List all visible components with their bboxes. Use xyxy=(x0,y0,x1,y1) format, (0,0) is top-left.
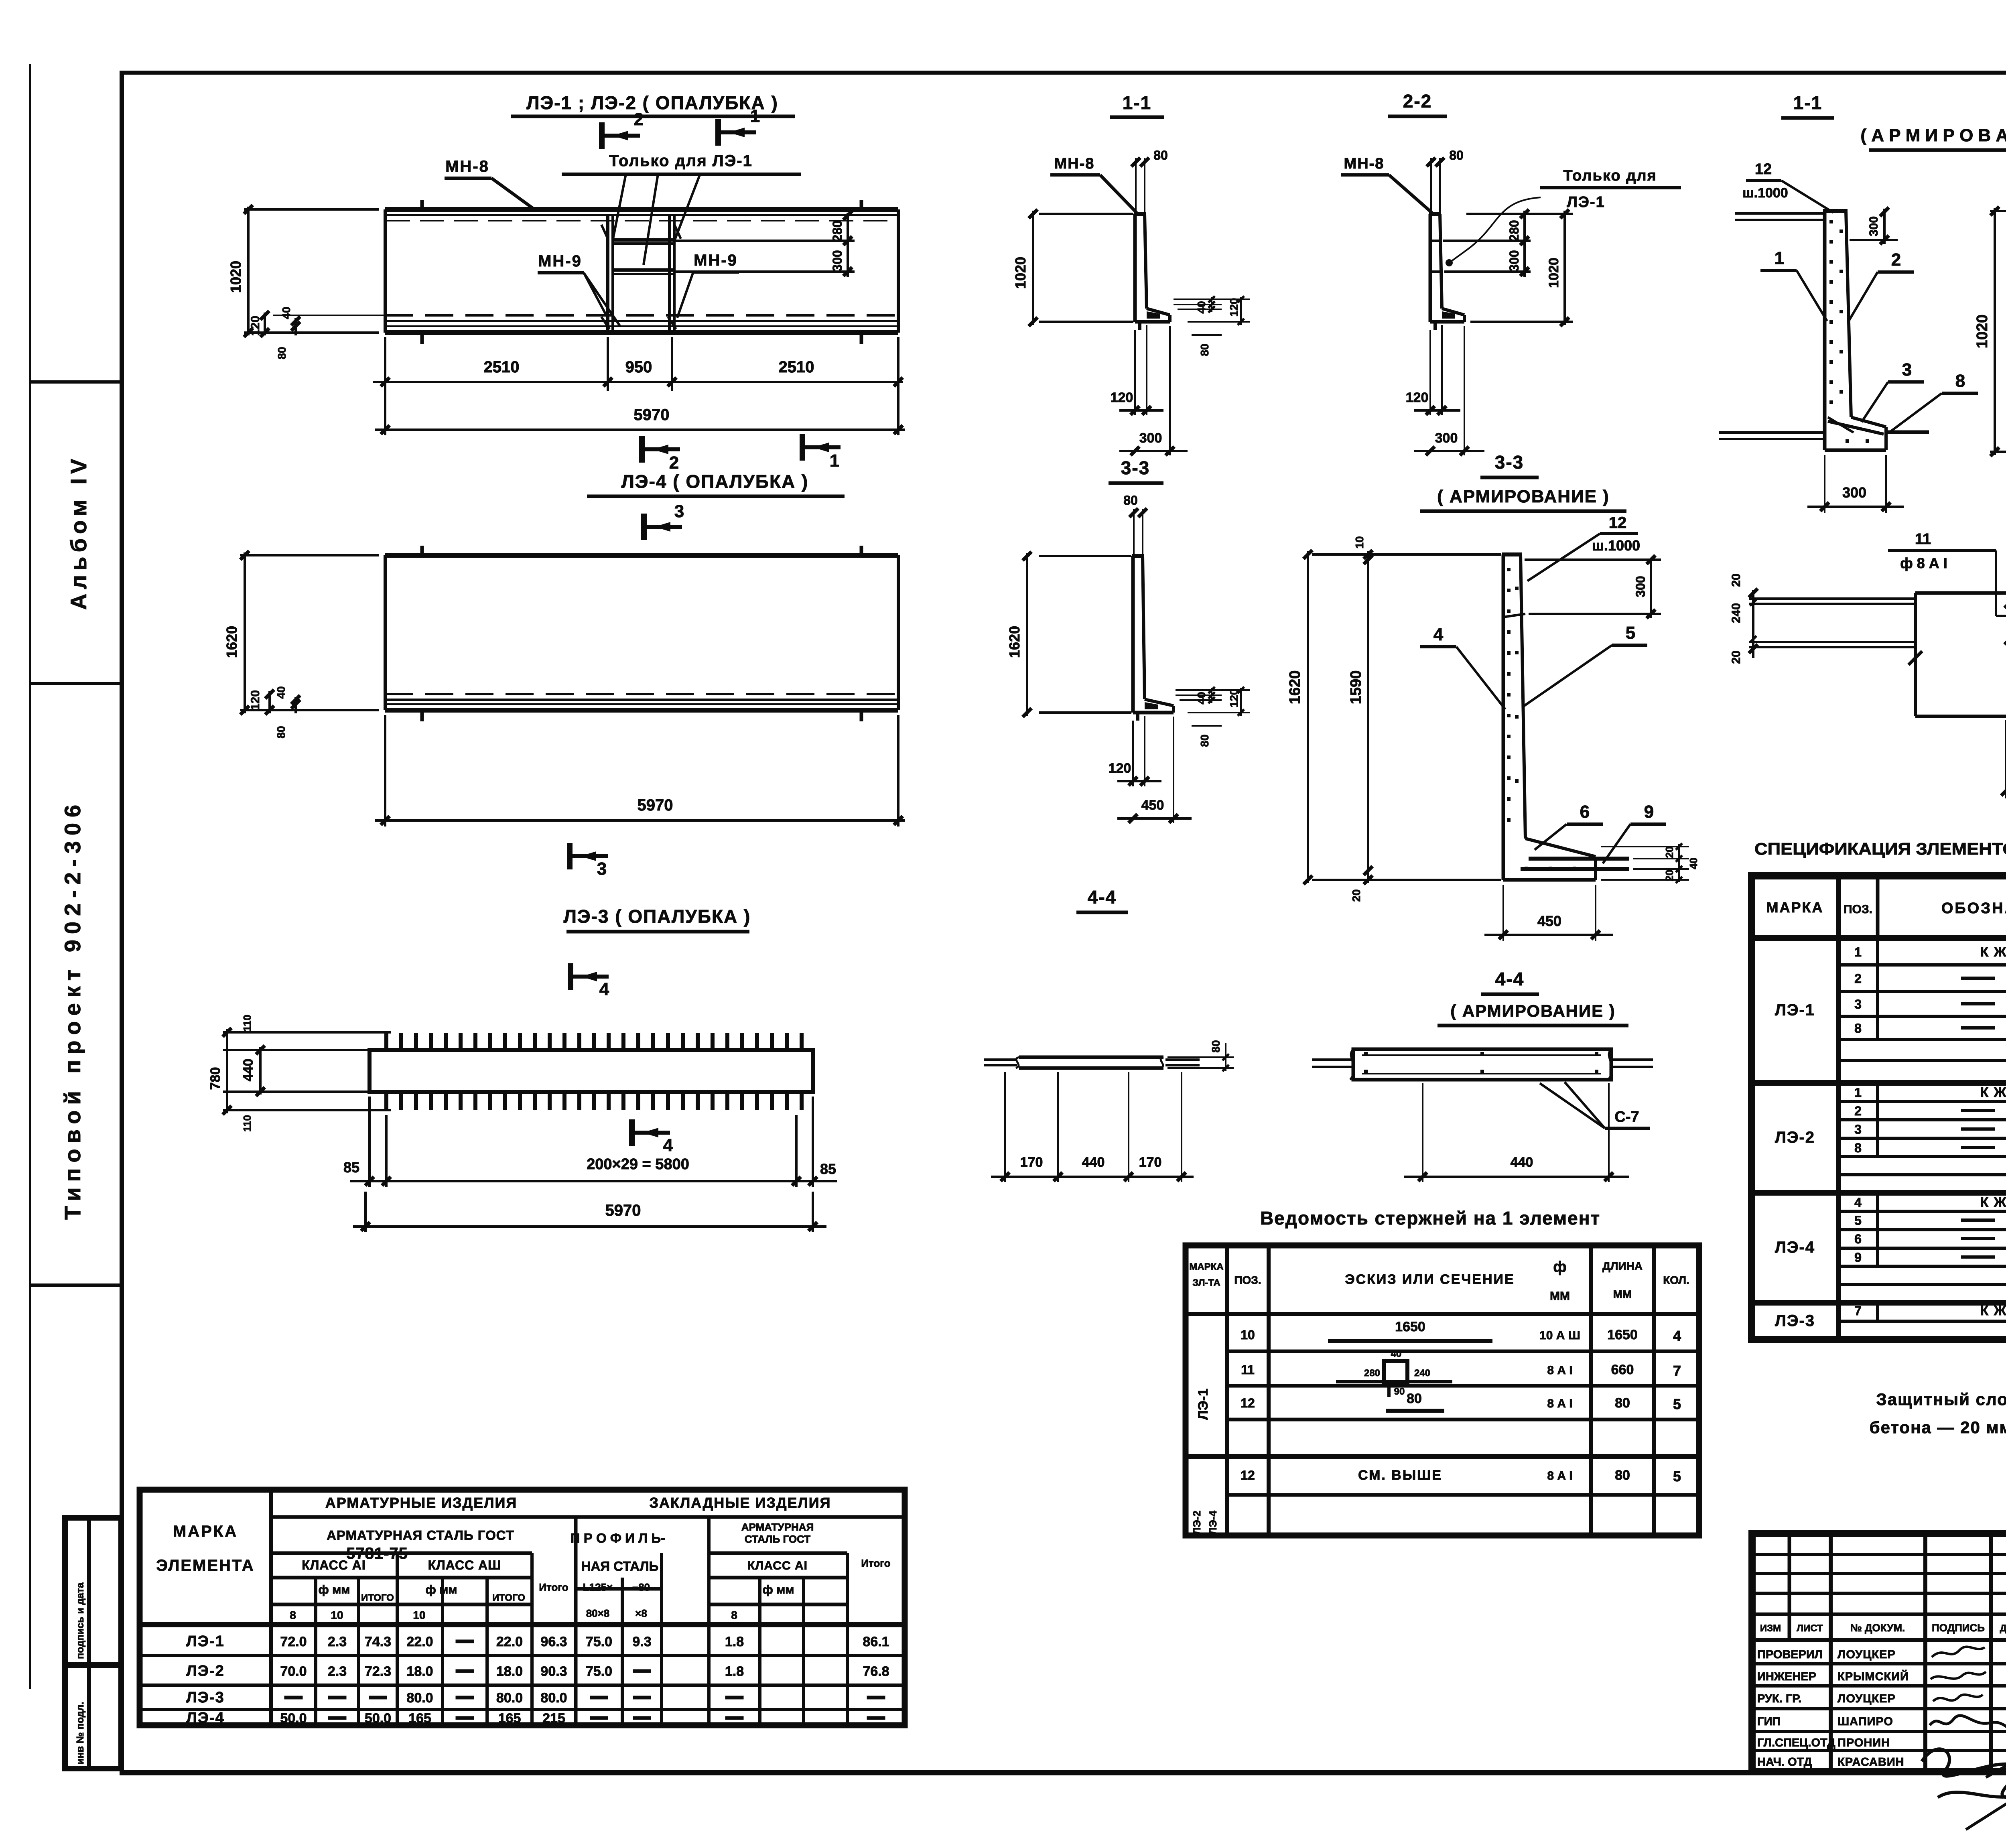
section 3-3 opalubka body xyxy=(1131,556,1135,713)
svg-text:80.0: 80.0 xyxy=(406,1690,433,1706)
svg-text:120: 120 xyxy=(1228,298,1240,317)
svg-text:7: 7 xyxy=(1673,1363,1681,1379)
section 4-4 armirovanie bar xyxy=(1353,1049,1611,1080)
svg-text:280: 280 xyxy=(830,220,845,242)
svg-text:85: 85 xyxy=(820,1161,836,1177)
dim 200x29=5800 xyxy=(368,1097,371,1187)
svg-text:120: 120 xyxy=(1228,689,1240,708)
svg-text:300: 300 xyxy=(1842,484,1866,501)
svg-text:1: 1 xyxy=(1854,1085,1862,1100)
svg-text:75.0: 75.0 xyxy=(586,1664,612,1679)
svg-text:ДАТЯ: ДАТЯ xyxy=(2000,1623,2006,1634)
svg-text:1.8: 1.8 xyxy=(725,1664,744,1679)
svg-text:1620: 1620 xyxy=(223,626,240,658)
svg-text:ИЗМ: ИЗМ xyxy=(1760,1623,1781,1634)
bottom dims 120 300 (2-2) xyxy=(1429,330,1431,415)
svg-text:ПОЗ.: ПОЗ. xyxy=(1844,903,1872,916)
svg-text:ЛЭ-1: ЛЭ-1 xyxy=(186,1633,225,1650)
svg-text:1020: 1020 xyxy=(1974,315,1991,349)
svg-text:660: 660 xyxy=(1611,1362,1634,1377)
rebar dots (1-1 arm) xyxy=(1829,220,1869,443)
svg-text:ПОЗ.: ПОЗ. xyxy=(1234,1274,1261,1286)
svg-text:3-3: 3-3 xyxy=(1495,452,1524,473)
svg-text:8: 8 xyxy=(731,1609,737,1621)
svg-text:5970: 5970 xyxy=(634,406,670,424)
bottom dims 120 300 (1-1) xyxy=(1134,330,1136,415)
svg-text:18.0: 18.0 xyxy=(496,1664,523,1679)
dims 170/440/170 (4-4 op) xyxy=(1004,1072,1006,1182)
svg-text:МАРКА: МАРКА xyxy=(173,1523,238,1540)
svg-text:ш.1000: ш.1000 xyxy=(1592,537,1640,554)
svg-text:440: 440 xyxy=(241,1059,256,1082)
svg-text:2: 2 xyxy=(1891,250,1901,270)
svg-text:165: 165 xyxy=(408,1711,431,1726)
svg-text:ПРОНИН: ПРОНИН xyxy=(1837,1736,1890,1749)
svg-text:ЛЭ-4 ( ОПАЛУБКА ): ЛЭ-4 ( ОПАЛУБКА ) xyxy=(621,471,809,492)
dim 5970 (LE-3) xyxy=(364,1192,367,1232)
svg-text:( АРМИРОВАНИЕ ): ( АРМИРОВАНИЕ ) xyxy=(1450,1001,1616,1020)
svg-text:96.3: 96.3 xyxy=(540,1634,567,1649)
svg-text:5: 5 xyxy=(1673,1468,1681,1484)
svg-text:ПОДПИСЬ: ПОДПИСЬ xyxy=(1932,1622,1985,1634)
svg-text:ЛЭ-4: ЛЭ-4 xyxy=(1775,1239,1815,1256)
svg-text:200×29 = 5800: 200×29 = 5800 xyxy=(587,1156,689,1173)
page frame xyxy=(120,71,2006,75)
svg-text:НАЧ. ОТД: НАЧ. ОТД xyxy=(1757,1756,1812,1769)
svg-text:300: 300 xyxy=(1507,250,1521,271)
svg-text:40: 40 xyxy=(1391,1348,1402,1359)
section marker 4 top xyxy=(571,963,609,999)
svg-text:ЛЭ-2: ЛЭ-2 xyxy=(186,1663,225,1679)
svg-text:3-3: 3-3 xyxy=(1121,457,1150,478)
svg-text:ЛЭ-4: ЛЭ-4 xyxy=(186,1710,225,1726)
svg-text:22.0: 22.0 xyxy=(406,1634,433,1649)
svg-text:КЛАСС АI: КЛАСС АI xyxy=(747,1559,808,1572)
svg-text:подпись и дата: подпись и дата xyxy=(75,1582,86,1659)
mesh stubs (1-1 arm) xyxy=(1735,212,1824,215)
svg-text:МН-8: МН-8 xyxy=(1344,155,1385,172)
svg-text:1020: 1020 xyxy=(1546,258,1561,288)
dim 5970 xyxy=(384,391,386,435)
svg-text:80: 80 xyxy=(276,347,288,359)
svg-text:СТАЛЬ ГОСТ: СТАЛЬ ГОСТ xyxy=(745,1533,810,1545)
svg-text:ЛЭ-4: ЛЭ-4 xyxy=(1207,1511,1219,1535)
svg-text:9.3: 9.3 xyxy=(632,1634,651,1649)
signature scribbles xyxy=(1932,1647,1985,1657)
svg-text:ГИП: ГИП xyxy=(1757,1715,1781,1728)
svg-text:40: 40 xyxy=(280,307,292,319)
title block left section grid xyxy=(1752,1533,2006,1772)
lifting loop ticks xyxy=(420,200,424,209)
section marker 1 bottom xyxy=(802,434,841,471)
lifting ticks LE-4 xyxy=(420,546,424,555)
svg-text:12: 12 xyxy=(1755,161,1772,178)
svg-text:ИТОГО: ИТОГО xyxy=(361,1592,394,1603)
svg-text:1.8: 1.8 xyxy=(725,1634,744,1649)
svg-text:РУК. ГР.: РУК. ГР. xyxy=(1757,1692,1801,1705)
svg-text:240: 240 xyxy=(1730,603,1743,623)
svg-text:72.0: 72.0 xyxy=(280,1634,307,1649)
svg-text:АРМАТУРНАЯ СТАЛЬ ГОСТ: АРМАТУРНАЯ СТАЛЬ ГОСТ xyxy=(327,1528,514,1543)
sidebar line xyxy=(29,64,31,1689)
svg-text:12: 12 xyxy=(1609,514,1627,532)
bottom dims 120 450 (3-3) xyxy=(1132,721,1134,786)
svg-text:80.0: 80.0 xyxy=(496,1690,523,1706)
svg-text:20: 20 xyxy=(1663,870,1675,881)
svg-text:ф мм: ф мм xyxy=(763,1583,794,1596)
svg-text:10: 10 xyxy=(1353,536,1366,548)
svg-text:300: 300 xyxy=(1867,216,1880,236)
svg-text:№ ДОКУМ.: № ДОКУМ. xyxy=(1850,1622,1905,1634)
svg-text:4: 4 xyxy=(1433,625,1444,644)
dim 80 right (4-4 op) xyxy=(1167,1056,1234,1058)
dim 300 bottom (1-1 arm) xyxy=(1824,455,1825,513)
svg-text:80: 80 xyxy=(1407,1391,1422,1406)
svg-text:ф 8 А I: ф 8 А I xyxy=(1900,555,1947,571)
dim 1020 (2-2 arm) xyxy=(1990,210,2006,212)
svg-text:2: 2 xyxy=(634,110,644,129)
svg-text:80: 80 xyxy=(1123,493,1138,508)
svg-text:3: 3 xyxy=(1902,360,1912,380)
section marker 3 bottom xyxy=(570,843,608,879)
svg-text:ММ: ММ xyxy=(1550,1290,1570,1303)
svg-text:6: 6 xyxy=(1580,802,1590,822)
svg-text:ЛЭ-3: ЛЭ-3 xyxy=(1775,1312,1815,1330)
svg-text:4-4: 4-4 xyxy=(1495,969,1524,989)
vedomost table grid xyxy=(1186,1245,1699,1535)
svg-text:МН-8: МН-8 xyxy=(445,158,489,175)
svg-text:К Ж - 39: К Ж - 39 xyxy=(1980,1085,2006,1100)
svg-text:L125×: L125× xyxy=(583,1581,613,1593)
beam LE-1 outline xyxy=(385,207,898,212)
svg-text:120: 120 xyxy=(249,690,262,710)
section 1-1 arm body xyxy=(1823,211,1827,450)
svg-text:МАРКА: МАРКА xyxy=(1189,1261,1223,1272)
svg-text:Итого: Итого xyxy=(539,1581,568,1593)
svg-text:ф мм: ф мм xyxy=(426,1583,457,1596)
svg-text:80: 80 xyxy=(1198,734,1211,747)
svg-text:СПЕЦИФИКАЦИЯ ЗЛЕМЕНТОВ К МА: СПЕЦИФИКАЦИЯ ЗЛЕМЕНТОВ К МАРКИРОВОЧНОЙ С… xyxy=(1754,839,2006,858)
svg-text:Только для ЛЭ-1: Только для ЛЭ-1 xyxy=(609,152,753,170)
svg-text:10: 10 xyxy=(331,1609,343,1621)
svg-text:450: 450 xyxy=(1141,798,1164,813)
svg-text:74.3: 74.3 xyxy=(365,1634,391,1649)
svg-text:Защитный слой: Защитный слой xyxy=(1876,1390,2006,1409)
right dims 280/300 xyxy=(674,240,855,242)
svg-text:бетона — 20 мм.: бетона — 20 мм. xyxy=(1870,1418,2006,1437)
svg-text:−80: −80 xyxy=(632,1581,650,1593)
svg-text:240: 240 xyxy=(1414,1368,1430,1379)
svg-text:70.0: 70.0 xyxy=(280,1664,307,1679)
svg-text:40: 40 xyxy=(1195,301,1208,313)
svg-text:1620: 1620 xyxy=(1287,670,1303,705)
svg-text:110: 110 xyxy=(241,1115,253,1132)
svg-text:950: 950 xyxy=(625,358,652,376)
svg-text:КЛАСС АШ: КЛАСС АШ xyxy=(428,1558,501,1572)
svg-text:ф мм: ф мм xyxy=(319,1583,350,1596)
svg-text:1-1: 1-1 xyxy=(1793,92,1822,113)
svg-text:22.0: 22.0 xyxy=(496,1634,523,1649)
svg-text:АРМАТУРНЫЕ ИЗДЕЛИЯ: АРМАТУРНЫЕ ИЗДЕЛИЯ xyxy=(325,1495,517,1511)
svg-text:780: 780 xyxy=(208,1067,223,1090)
svg-text:440: 440 xyxy=(1511,1155,1533,1170)
right small dims (3-3) xyxy=(1176,689,1250,691)
svg-text:ШАПИРО: ШАПИРО xyxy=(1837,1715,1893,1728)
svg-text:КОЛ.: КОЛ. xyxy=(1663,1274,1689,1286)
left small dims 120 40 80 (LE-4) xyxy=(268,691,271,713)
svg-text:ЛОУЦКЕР: ЛОУЦКЕР xyxy=(1837,1692,1896,1705)
svg-text:300: 300 xyxy=(1139,431,1162,446)
title block outer xyxy=(1752,1533,2006,1772)
svg-text:1: 1 xyxy=(1775,248,1784,268)
svg-text:1650: 1650 xyxy=(1607,1327,1638,1342)
svg-text:Типовой проект 902-2-306: Типовой проект 902-2-306 xyxy=(60,799,85,1220)
svg-text:ЛОУЦКЕР: ЛОУЦКЕР xyxy=(1837,1648,1896,1661)
dim 1020 left (1-1) xyxy=(1039,213,1133,215)
svg-text:8: 8 xyxy=(290,1609,296,1621)
svg-text:2: 2 xyxy=(1854,1104,1862,1118)
dims 1620/1590 left (3-3 arm) xyxy=(1312,553,1501,556)
svg-text:С-7: С-7 xyxy=(1614,1109,1639,1125)
dim 1620 left (3-3) xyxy=(1039,555,1131,557)
dim 300 (1-1 arm top right) xyxy=(1850,239,1898,241)
bottom bars sticking right (3-3 arm) xyxy=(1529,857,1629,861)
dim row 2510/950/2510 xyxy=(384,337,386,391)
svg-text:20: 20 xyxy=(1730,573,1743,587)
svg-text:75.0: 75.0 xyxy=(586,1634,612,1649)
svg-text:80: 80 xyxy=(1210,1040,1222,1052)
svg-text:7: 7 xyxy=(1854,1304,1862,1318)
svg-text:8: 8 xyxy=(1854,1141,1862,1155)
svg-text:85: 85 xyxy=(343,1159,359,1176)
sidebar stamp boxes xyxy=(65,1518,121,1769)
svg-text:КЛАСС АI: КЛАСС АI xyxy=(302,1558,365,1572)
svg-text:9: 9 xyxy=(1644,802,1654,822)
svg-text:2: 2 xyxy=(669,453,679,473)
svg-text:8: 8 xyxy=(1854,1021,1862,1036)
middle joint verticals (950 zone) xyxy=(606,215,609,333)
svg-text:ЛЭ-2: ЛЭ-2 xyxy=(1775,1129,1815,1146)
svg-text:120: 120 xyxy=(1406,390,1429,405)
svg-text:2-2: 2-2 xyxy=(1403,91,1432,112)
spec block LE-4 xyxy=(1752,1300,2006,1306)
svg-text:170: 170 xyxy=(1020,1155,1043,1170)
LE-3 left dims xyxy=(223,1031,391,1034)
dim 440 (4-4 arm) xyxy=(1422,1083,1423,1182)
svg-text:ГЛ.СПЕЦ.ОТД: ГЛ.СПЕЦ.ОТД xyxy=(1757,1736,1835,1749)
svg-text:2510: 2510 xyxy=(484,358,520,376)
svg-text:К Ж - 39: К Ж - 39 xyxy=(1980,944,2006,960)
svg-text:40: 40 xyxy=(275,686,287,699)
spec block LE-2 xyxy=(1752,1190,2006,1196)
svg-text:СМ. ВЫШЕ: СМ. ВЫШЕ xyxy=(1358,1468,1442,1483)
svg-text:40: 40 xyxy=(1687,858,1699,869)
svg-text:440: 440 xyxy=(1082,1155,1105,1170)
right dims 280/300/1020 (2-2) xyxy=(1443,240,1531,242)
svg-text:12: 12 xyxy=(1241,1396,1255,1410)
svg-text:11: 11 xyxy=(1915,531,1931,548)
left dim 1020 xyxy=(244,208,379,211)
svg-text:ЛЭ-3 ( ОПАЛУБКА ): ЛЭ-3 ( ОПАЛУБКА ) xyxy=(564,906,751,927)
svg-text:НАЯ СТАЛЬ: НАЯ СТАЛЬ xyxy=(581,1559,659,1574)
svg-text:5: 5 xyxy=(1854,1213,1862,1228)
svg-text:МАРКА: МАРКА xyxy=(1766,899,1824,916)
svg-text:ОБОЗНАЧЕНИЕ: ОБОЗНАЧЕНИЕ xyxy=(1941,900,2006,917)
svg-text:8 А I: 8 А I xyxy=(1547,1469,1572,1482)
svg-text:5970: 5970 xyxy=(605,1202,641,1219)
svg-text:8: 8 xyxy=(1955,371,1965,391)
svg-text:120: 120 xyxy=(1109,761,1131,776)
svg-text:5: 5 xyxy=(1673,1396,1681,1412)
svg-text:ЗЛ-ТА: ЗЛ-ТА xyxy=(1192,1277,1220,1288)
spec block LE-3 xyxy=(1752,1337,2006,1342)
svg-text:10: 10 xyxy=(1241,1328,1255,1342)
left small dims 120 40 80 xyxy=(273,315,385,316)
svg-text:50.0: 50.0 xyxy=(365,1711,391,1726)
svg-text:20: 20 xyxy=(1663,847,1675,858)
mesh stubs left (d-d) xyxy=(1749,597,1914,600)
svg-text:МН-9: МН-9 xyxy=(694,252,738,269)
section marker 4 middle xyxy=(632,1119,673,1155)
svg-text:5970: 5970 xyxy=(638,796,673,814)
svg-text:120: 120 xyxy=(249,316,262,336)
svg-text:1650: 1650 xyxy=(1395,1319,1425,1334)
svg-text:1: 1 xyxy=(750,106,760,126)
svg-text:76.8: 76.8 xyxy=(863,1664,889,1679)
svg-text:Итого: Итого xyxy=(861,1557,890,1569)
svg-text:1: 1 xyxy=(1854,945,1862,959)
svg-text:20: 20 xyxy=(1730,650,1743,664)
svg-text:инв № подл.: инв № подл. xyxy=(75,1702,86,1765)
spec table grid xyxy=(1752,876,2006,1340)
svg-text:2510: 2510 xyxy=(779,358,814,376)
svg-text:9: 9 xyxy=(1854,1250,1862,1265)
svg-text:ДЛИНА: ДЛИНА xyxy=(1602,1260,1643,1272)
svg-text:1590: 1590 xyxy=(1348,670,1364,705)
beam LE-3 body xyxy=(370,1050,813,1092)
svg-text:Альбом IV: Альбом IV xyxy=(66,455,91,610)
svg-text:1020: 1020 xyxy=(227,261,244,293)
svg-text:300: 300 xyxy=(1435,431,1458,446)
svg-text:170: 170 xyxy=(1139,1155,1162,1170)
section 3-3 arm body xyxy=(1502,554,1505,880)
svg-text:300: 300 xyxy=(1633,576,1648,597)
svg-text:( АРМИРОВАНИЕ ): ( АРМИРОВАНИЕ ) xyxy=(1437,487,1610,506)
svg-text:90.3: 90.3 xyxy=(540,1664,567,1679)
svg-text:80: 80 xyxy=(1153,148,1168,162)
comb ticks bottom xyxy=(384,1092,388,1110)
svg-text:П Р О Ф И Л Ь-: П Р О Ф И Л Ь- xyxy=(571,1531,665,1545)
svg-text:ЛЭ-3: ЛЭ-3 xyxy=(186,1689,225,1706)
svg-text:ЭСКИЗ ИЛИ СЕЧЕНИЕ: ЭСКИЗ ИЛИ СЕЧЕНИЕ xyxy=(1345,1272,1515,1287)
svg-text:450: 450 xyxy=(1537,913,1561,929)
svg-text:3: 3 xyxy=(1854,1122,1862,1137)
dim 300 top right (3-3 arm) xyxy=(1529,613,1661,615)
svg-text:К Ж - 39: К Ж - 39 xyxy=(1980,1303,2006,1318)
svg-text:2.3: 2.3 xyxy=(328,1634,347,1649)
svg-text:МН-8: МН-8 xyxy=(1054,155,1095,172)
svg-text:280: 280 xyxy=(1364,1368,1380,1379)
svg-text:8 А I: 8 А I xyxy=(1547,1397,1572,1410)
comb ticks top xyxy=(384,1033,388,1050)
svg-text:ЛЭ-1 ; ЛЭ-2 ( ОПАЛУБКА ): ЛЭ-1 ; ЛЭ-2 ( ОПАЛУБКА ) xyxy=(526,92,778,113)
svg-text:280: 280 xyxy=(1507,220,1521,241)
svg-text:ИТОГО: ИТОГО xyxy=(492,1592,525,1603)
svg-text:80: 80 xyxy=(275,726,287,738)
svg-text:6: 6 xyxy=(1854,1232,1862,1246)
svg-text:110: 110 xyxy=(241,1015,253,1032)
svg-text:ЗАКЛАДНЫЕ ИЗДЕЛИЯ: ЗАКЛАДНЫЕ ИЗДЕЛИЯ xyxy=(649,1495,831,1511)
svg-text:ЭЛЕМЕНТА: ЭЛЕМЕНТА xyxy=(156,1557,254,1574)
svg-text:ММ: ММ xyxy=(1613,1288,1632,1300)
svg-text:86.1: 86.1 xyxy=(863,1634,889,1649)
materials table bottom-left xyxy=(140,1490,905,1725)
slab outline (d-d) xyxy=(1915,591,2006,595)
svg-text:300: 300 xyxy=(830,250,845,271)
svg-text:МН-9: МН-9 xyxy=(538,252,582,270)
section marker 1 top xyxy=(718,106,760,146)
svg-text:80: 80 xyxy=(1449,148,1464,162)
section marker 3 top xyxy=(644,502,684,540)
svg-text:1: 1 xyxy=(830,451,839,471)
svg-text:ЛЭ-1: ЛЭ-1 xyxy=(1196,1389,1211,1420)
svg-text:40: 40 xyxy=(1195,692,1208,704)
svg-text:×8: ×8 xyxy=(635,1607,647,1619)
svg-text:3: 3 xyxy=(1854,997,1862,1011)
svg-text:215: 215 xyxy=(542,1711,565,1726)
svg-text:К Ж - 39: К Ж - 39 xyxy=(1980,1195,2006,1210)
flange diagonal bar (1-1 arm) xyxy=(1828,421,1884,434)
svg-text:ЛЭ-2: ЛЭ-2 xyxy=(1191,1511,1203,1535)
beam LE-4 outline xyxy=(385,553,898,558)
bottom dims 350/950/350 (d-d) xyxy=(2005,720,2006,798)
svg-text:20: 20 xyxy=(1350,889,1362,902)
section marker 2 top xyxy=(602,110,644,149)
dim 80 top (1-1) xyxy=(1135,158,1137,214)
svg-text:ЛЭ-1: ЛЭ-1 xyxy=(1567,194,1605,211)
left dim 1620 xyxy=(240,554,379,556)
svg-text:ш.1000: ш.1000 xyxy=(1742,185,1788,201)
svg-text:ПРОВЕРИЛ: ПРОВЕРИЛ xyxy=(1757,1648,1823,1661)
svg-text:Только для: Только для xyxy=(1563,167,1657,184)
section marker 2 bottom xyxy=(642,436,680,473)
spec block LE-1 xyxy=(1752,1080,2006,1086)
svg-text:3: 3 xyxy=(674,502,684,521)
svg-text:10 А Ш: 10 А Ш xyxy=(1539,1329,1580,1342)
MN-9 bars between joints xyxy=(613,238,674,242)
section 4-4 opalubka bar xyxy=(1019,1056,1163,1059)
svg-text:ИНЖЕНЕР: ИНЖЕНЕР xyxy=(1757,1670,1816,1683)
svg-text:ЛИСТ: ЛИСТ xyxy=(1797,1623,1823,1634)
rebar dots (3-3 arm) xyxy=(1507,568,1576,870)
svg-text:1620: 1620 xyxy=(1006,626,1023,658)
svg-text:8 А I: 8 А I xyxy=(1547,1364,1572,1377)
svg-text:80: 80 xyxy=(1615,1468,1630,1483)
svg-text:2: 2 xyxy=(1854,971,1862,986)
svg-text:90: 90 xyxy=(1394,1386,1405,1397)
svg-text:4-4: 4-4 xyxy=(1088,887,1117,908)
svg-text:4: 4 xyxy=(599,979,609,999)
svg-text:120: 120 xyxy=(1111,390,1133,405)
svg-text:80: 80 xyxy=(1615,1395,1630,1411)
svg-text:АРМАТУРНАЯ: АРМАТУРНАЯ xyxy=(741,1521,814,1533)
small dims right bottom (3-3 arm) xyxy=(1601,846,1689,847)
svg-text:2.3: 2.3 xyxy=(328,1664,347,1679)
svg-text:4: 4 xyxy=(1673,1328,1681,1344)
svg-text:72.3: 72.3 xyxy=(365,1664,391,1679)
svg-text:18.0: 18.0 xyxy=(406,1664,433,1679)
svg-text:80×8: 80×8 xyxy=(586,1607,610,1619)
